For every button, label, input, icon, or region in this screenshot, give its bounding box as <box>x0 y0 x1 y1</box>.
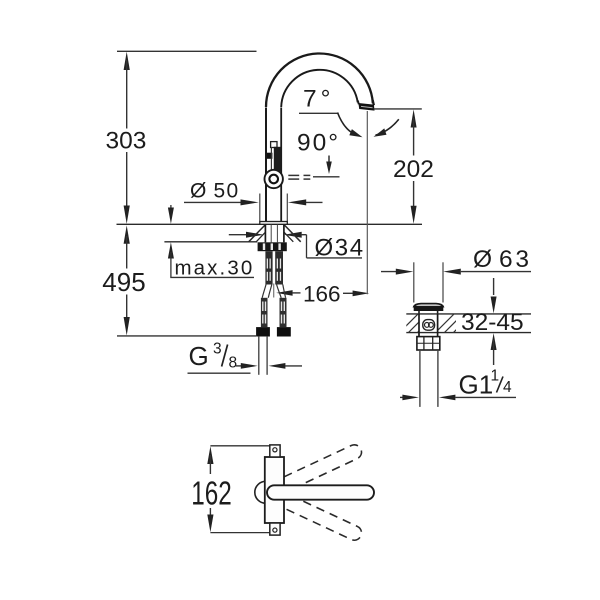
svg-text:4: 4 <box>503 379 512 396</box>
svg-text:202: 202 <box>393 156 434 183</box>
dimension diameter 34 <box>229 232 365 262</box>
supply hose braided left <box>265 251 272 284</box>
drain tailpipe <box>420 350 438 407</box>
hose bend right <box>277 285 286 298</box>
swivel position dashed lower <box>264 486 363 543</box>
svg-text:162: 162 <box>191 475 232 512</box>
svg-text:Ø34: Ø34 <box>315 235 365 262</box>
bottom reference line <box>117 335 256 337</box>
dimension G 3/8 <box>188 341 303 374</box>
svg-text:63: 63 <box>499 246 532 273</box>
dimension 303 <box>106 52 147 224</box>
dimension 166 <box>276 282 369 307</box>
drain stem <box>419 311 438 314</box>
hose bend left <box>262 285 272 298</box>
svg-text:90°: 90° <box>297 130 340 157</box>
shank <box>265 225 284 243</box>
mounting deck line <box>117 223 423 225</box>
spout top view <box>267 485 374 499</box>
svg-text:8: 8 <box>229 354 238 371</box>
connector cap left <box>256 327 270 336</box>
drain nut <box>417 337 440 350</box>
drain body <box>419 314 438 337</box>
swivel position dashed upper <box>264 442 363 499</box>
top mounting tab <box>270 445 280 457</box>
dimension G1 1/4 <box>400 368 516 401</box>
spout axis extension line <box>366 111 368 294</box>
hose connector right <box>280 298 287 327</box>
lever handle <box>267 142 282 172</box>
swivel arc left <box>338 113 363 138</box>
counter bottom line <box>406 332 531 334</box>
dimension 162 <box>191 446 270 533</box>
mounting hatch right <box>284 225 301 242</box>
base flange <box>260 222 288 225</box>
dimension 32-45 <box>461 278 524 365</box>
mounting hatch left <box>249 225 266 242</box>
datum line for 7 degrees <box>299 112 339 114</box>
lever pivot <box>265 170 283 188</box>
deck underside line <box>164 241 257 243</box>
hose connector left <box>261 298 268 327</box>
svg-text:303: 303 <box>106 128 147 155</box>
swivel arc right <box>374 119 399 137</box>
svg-text:Ø: Ø <box>473 246 492 273</box>
hose tail <box>259 337 267 375</box>
pivot circle top view <box>255 481 277 503</box>
drain plug cap <box>414 304 444 311</box>
svg-text:1: 1 <box>491 368 500 385</box>
body top view <box>265 457 284 523</box>
dimension diameter 63 <box>381 246 532 303</box>
centerline dashes <box>288 175 310 179</box>
dimension 495 <box>102 225 145 335</box>
lever guide line <box>313 176 340 178</box>
svg-text:495: 495 <box>102 267 145 297</box>
svg-text:G: G <box>189 341 209 371</box>
svg-text:3: 3 <box>213 341 222 358</box>
spout outlet <box>358 100 375 111</box>
angle 7 label <box>303 86 334 113</box>
counter hatching <box>398 312 474 334</box>
dimension diameter 50 <box>184 180 323 222</box>
svg-text:Ø: Ø <box>190 180 206 203</box>
svg-text:G1: G1 <box>459 370 494 400</box>
angle 90 label <box>297 130 340 175</box>
mounting nut <box>258 242 287 251</box>
counter top line <box>406 313 531 315</box>
bottom mounting tab <box>270 523 280 535</box>
svg-text:max.30: max.30 <box>175 257 255 280</box>
dimension max.30 <box>168 205 254 280</box>
connector cap right <box>277 327 291 336</box>
svg-text:7°: 7° <box>303 86 334 113</box>
spout tube <box>266 53 373 221</box>
faucet centerline <box>273 284 275 298</box>
top extension line <box>117 50 257 52</box>
svg-text:50: 50 <box>214 180 240 203</box>
svg-text:166: 166 <box>303 282 341 307</box>
svg-text:32-45: 32-45 <box>461 309 524 336</box>
dimension 202 <box>374 109 434 224</box>
supply hose braided right <box>275 251 283 284</box>
